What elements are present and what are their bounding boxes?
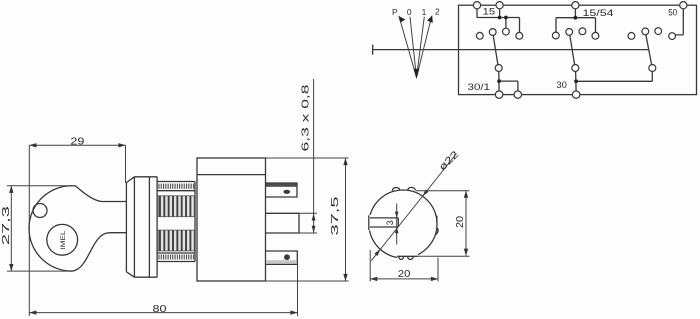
15 bracket <box>477 9 520 32</box>
terminal 15/54 circle <box>572 2 579 9</box>
dim 80 <box>297 252 299 317</box>
svg-text:15: 15 <box>483 7 496 17</box>
front view outline <box>369 190 437 258</box>
key axis line <box>373 45 648 55</box>
dim 6,3 x 0,8 <box>299 79 317 233</box>
dim diameter 22 leader <box>371 154 456 261</box>
section3 moving contact <box>646 35 652 65</box>
svg-text:29: 29 <box>70 137 85 148</box>
dim 27,3 <box>7 186 72 271</box>
svg-text:20: 20 <box>455 216 466 228</box>
terminal 15 circles <box>473 2 480 9</box>
section1 moving contact <box>493 35 498 64</box>
section2 moving contact <box>570 35 575 64</box>
section3 position circles <box>628 33 635 40</box>
key logo IMEL <box>47 224 78 255</box>
lock bezel <box>126 177 157 277</box>
svg-text:15/54: 15/54 <box>583 8 614 18</box>
key head <box>29 186 126 271</box>
svg-text:37,5: 37,5 <box>330 196 341 236</box>
front top tabs <box>392 187 415 190</box>
section2 position circles <box>552 32 559 39</box>
section1 position circles <box>476 32 483 39</box>
svg-text:20: 20 <box>398 269 411 280</box>
svg-text:0: 0 <box>407 7 412 17</box>
key hole <box>33 204 47 218</box>
svg-text:2: 2 <box>435 6 440 16</box>
threaded barrel <box>157 182 195 262</box>
dim 29 <box>29 145 125 316</box>
position fan <box>399 16 432 78</box>
front bottom flat and tabs <box>397 254 418 260</box>
front right notch <box>437 216 440 222</box>
terminal top <box>266 183 297 197</box>
50 link <box>676 9 684 35</box>
svg-text:ø22: ø22 <box>437 149 461 173</box>
front keyway <box>367 215 372 230</box>
svg-text:27,3: 27,3 <box>1 205 12 245</box>
svg-text:50: 50 <box>668 7 677 17</box>
15/54 bracket <box>556 9 596 33</box>
svg-text:3: 3 <box>385 220 395 225</box>
dim 20 bottom <box>370 250 438 282</box>
terminal middle <box>266 213 299 233</box>
svg-text:30: 30 <box>556 80 567 90</box>
dim 3 keyway <box>396 204 398 245</box>
terminal 30/1 circles <box>495 91 502 98</box>
svg-text:IMEL: IMEL <box>60 230 67 249</box>
svg-text:6,3 x 0,8: 6,3 x 0,8 <box>301 84 312 152</box>
body seam <box>197 174 266 176</box>
terminal 30 circle <box>572 91 579 98</box>
schematic box <box>459 5 697 94</box>
svg-text:30/1: 30/1 <box>468 82 491 92</box>
dim 37,5 <box>266 158 349 281</box>
terminal 50 circle <box>680 2 687 9</box>
svg-text:1: 1 <box>422 7 427 17</box>
svg-text:80: 80 <box>153 304 168 315</box>
switch body <box>197 158 266 281</box>
svg-text:P: P <box>392 7 398 17</box>
terminal bottom <box>266 251 297 264</box>
dim 20 right <box>416 191 470 257</box>
